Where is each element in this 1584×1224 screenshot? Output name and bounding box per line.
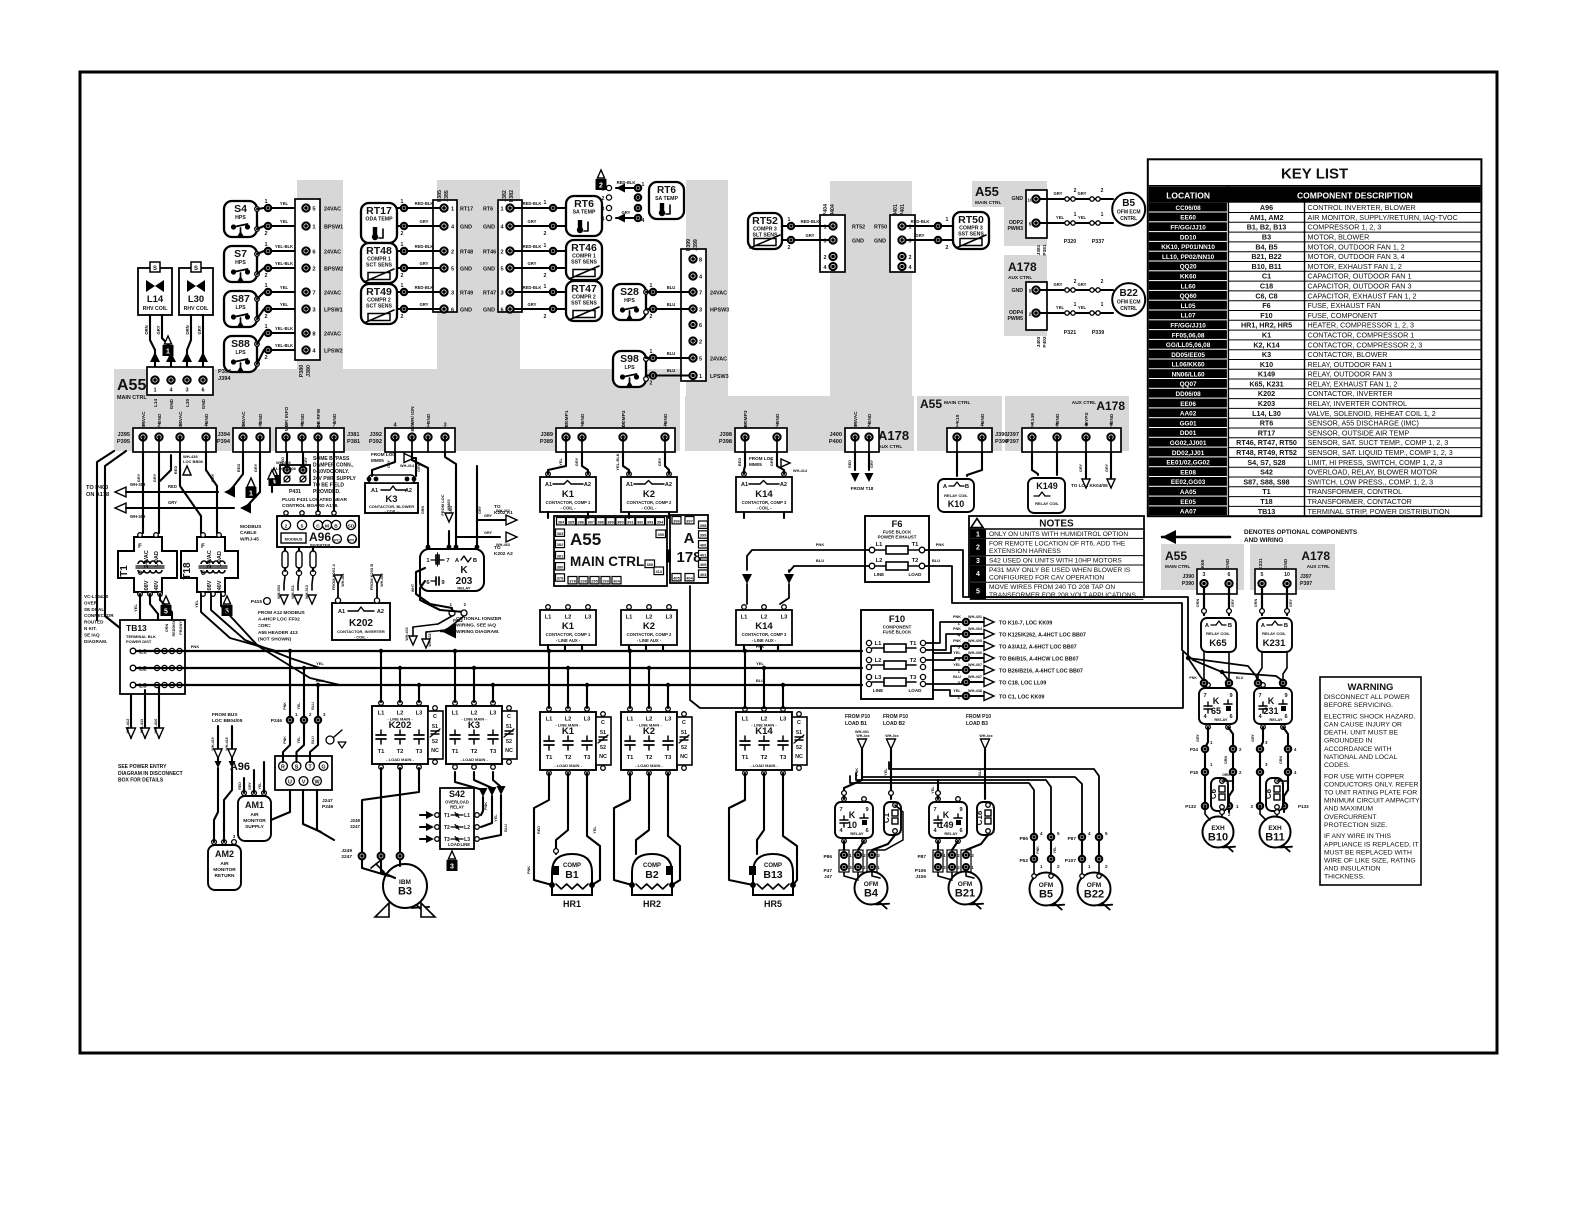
- svg-text:394: 394: [657, 519, 664, 524]
- svg-text:MM05: MM05: [446, 499, 451, 511]
- pressure switch S4: [224, 201, 257, 237]
- svg-text:390: 390: [617, 519, 624, 524]
- svg-text:GND: GND: [1225, 558, 1231, 569]
- wires J392 to K3 coil: [372, 452, 395, 476]
- svg-text:K2: K2: [643, 489, 655, 500]
- A178 harness vertical bar 4 (P404/J404 - J401/P401): [830, 181, 912, 397]
- svg-text:COMP3: COMP3: [743, 410, 749, 427]
- svg-text:J247: J247: [322, 798, 333, 804]
- svg-text:P86: P86: [1019, 836, 1028, 842]
- svg-text:P431: P431: [289, 489, 301, 495]
- svg-text:J394: J394: [218, 376, 231, 382]
- svg-text:AM2: AM2: [215, 849, 234, 859]
- svg-text:TB13: TB13: [126, 623, 147, 633]
- svg-text:RED: RED: [173, 466, 178, 475]
- svg-text:T2: T2: [912, 558, 919, 564]
- outdoor fan motor B5 control: [1112, 193, 1145, 226]
- svg-text:LOCATION: LOCATION: [1166, 191, 1210, 201]
- svg-text:C8: C8: [1264, 788, 1273, 799]
- svg-text:J380: J380: [306, 365, 312, 377]
- svg-text:9: 9: [865, 807, 868, 813]
- left edge vertical wires: [97, 451, 114, 620]
- svg-text:OVERLOAD, RELAY, BLOWER MOTOR: OVERLOAD, RELAY, BLOWER MOTOR: [1308, 468, 1438, 477]
- svg-text:1: 1: [1040, 864, 1043, 869]
- svg-text:BLU: BLU: [667, 351, 676, 356]
- svg-text:WH-462: WH-462: [496, 509, 510, 513]
- svg-text:396: 396: [673, 518, 680, 523]
- wires F10 load to arrows: [926, 622, 962, 643]
- svg-text:CAPACITOR, OUTDOOR FAN 3: CAPACITOR, OUTDOOR FAN 3: [1308, 282, 1412, 291]
- svg-text:WH-463: WH-463: [496, 543, 510, 547]
- svg-text:REDDISH: REDDISH: [172, 619, 176, 636]
- svg-text:WH-414: WH-414: [400, 464, 415, 468]
- svg-text:2: 2: [992, 829, 995, 834]
- svg-text:YEL: YEL: [316, 661, 324, 666]
- transformer T1: [118, 537, 177, 592]
- svg-text:J397: J397: [1007, 432, 1019, 438]
- svg-text:C18: C18: [1260, 282, 1273, 291]
- svg-text:OFM ECM: OFM ECM: [1117, 300, 1141, 306]
- wires K149/C18 to P87: [937, 841, 939, 850]
- relay K203: [420, 549, 484, 591]
- connector J390/P390: [947, 428, 992, 452]
- svg-text:GND: GND: [460, 267, 472, 273]
- svg-text:P87: P87: [1067, 836, 1076, 842]
- svg-text:A55: A55: [117, 377, 146, 394]
- svg-text:LOC BB04/05: LOC BB04/05: [212, 718, 243, 724]
- connector J397/P397 (K231): [1255, 569, 1296, 594]
- svg-text:HEATER, COMPRESSOR 1, 2, 3: HEATER, COMPRESSOR 1, 2, 3: [1308, 321, 1415, 330]
- svg-text:BLU: BLU: [667, 285, 676, 290]
- svg-text:GRY: GRY: [197, 325, 202, 334]
- pressure switch S98: [613, 351, 646, 387]
- contactor K2 line main: [621, 712, 677, 770]
- svg-text:PNK: PNK: [1036, 846, 1040, 854]
- svg-text:GRY: GRY: [1078, 282, 1087, 287]
- svg-text:K202: K202: [1258, 389, 1275, 398]
- svg-text:N KIT.: N KIT.: [84, 626, 97, 631]
- svg-text:RT6: RT6: [574, 198, 594, 210]
- svg-text:24VAC: 24VAC: [324, 332, 341, 338]
- svg-text:LL07: LL07: [1181, 313, 1196, 320]
- svg-text:P404: P404: [823, 204, 829, 216]
- svg-text:L3: L3: [665, 717, 673, 723]
- svg-text:2: 2: [1101, 188, 1104, 194]
- svg-text:YEL: YEL: [297, 736, 301, 744]
- svg-text:380: 380: [557, 565, 564, 570]
- svg-text:GND: GND: [300, 413, 306, 424]
- svg-text:P397: P397: [1300, 581, 1312, 587]
- svg-text:5: 5: [301, 524, 304, 530]
- svg-text:2: 2: [976, 545, 980, 552]
- svg-text:FF05,06,08: FF05,06,08: [1172, 332, 1205, 339]
- svg-text:AUX CTRL: AUX CTRL: [1008, 275, 1032, 281]
- svg-text:PNK: PNK: [953, 615, 961, 619]
- optional RT6 remote pins: [606, 185, 611, 190]
- svg-text:L1: L1: [546, 717, 554, 723]
- svg-text:YEL: YEL: [756, 661, 764, 666]
- contactor K202 aux contact: [428, 711, 443, 759]
- svg-text:A55: A55: [975, 184, 999, 199]
- svg-text:LINE: LINE: [874, 572, 884, 577]
- svg-text:2: 2: [264, 231, 267, 237]
- wires J381 band to P431: [286, 452, 288, 467]
- svg-text:CODES.: CODES.: [1324, 762, 1350, 769]
- svg-text:RED-BLK: RED-BLK: [415, 244, 434, 249]
- svg-text:GRY: GRY: [1196, 734, 1200, 742]
- svg-text:HPSW3: HPSW3: [710, 308, 729, 314]
- svg-text:BYPS: BYPS: [1084, 412, 1090, 426]
- svg-text:WH-513: WH-513: [305, 585, 309, 599]
- svg-text:J395: J395: [118, 432, 130, 438]
- svg-text:B10: B10: [1208, 832, 1228, 844]
- contactor K2 line aux: [621, 610, 677, 645]
- svg-text:5: 5: [1105, 831, 1108, 836]
- svg-text:B22: B22: [1120, 288, 1139, 299]
- svg-text:GRY: GRY: [528, 261, 537, 266]
- key list column line: [1227, 187, 1229, 517]
- svg-text:T1: T1: [444, 813, 450, 819]
- svg-text:149: 149: [938, 820, 953, 830]
- bus taps to contactors: [379, 649, 785, 708]
- svg-text:4: 4: [909, 265, 912, 271]
- wires K2 load to B2: [614, 773, 632, 885]
- svg-text:P132: P132: [1185, 804, 1196, 809]
- svg-text:BLU: BLU: [932, 558, 940, 563]
- svg-text:295: 295: [591, 578, 598, 583]
- svg-text:TO UNIT RATING PLATE FOR: TO UNIT RATING PLATE FOR: [1324, 790, 1417, 797]
- svg-text:K1: K1: [1262, 331, 1271, 340]
- svg-text:MAIN CTRL: MAIN CTRL: [570, 554, 644, 569]
- svg-text:GRY: GRY: [420, 261, 429, 266]
- svg-text:T3: T3: [584, 755, 592, 761]
- svg-text:51: 51: [681, 730, 687, 736]
- svg-text:B: B: [1284, 623, 1288, 629]
- svg-text:RT46: RT46: [483, 250, 496, 256]
- ionizer text: [441, 624, 456, 639]
- svg-text:1: 1: [544, 284, 547, 290]
- svg-text:24VAC: 24VAC: [241, 411, 247, 427]
- wires F6 load to K65/K231: [925, 550, 1204, 681]
- svg-text:T1: T1: [546, 755, 554, 761]
- svg-text:T1: T1: [119, 565, 130, 577]
- svg-text:YEL-BLK: YEL-BLK: [275, 261, 293, 266]
- optional flag 5 (T18): [223, 596, 230, 604]
- svg-text:GRY: GRY: [1054, 191, 1063, 196]
- J394 wires down: [228, 452, 243, 492]
- connector J395/P395: [133, 428, 216, 452]
- optional flag 1 (P400): [247, 478, 255, 487]
- svg-text:PC: PC: [334, 538, 340, 543]
- svg-text:J399: J399: [693, 239, 699, 251]
- svg-text:SUPPLY: SUPPLY: [245, 824, 265, 830]
- svg-text:52: 52: [681, 745, 687, 751]
- svg-text:L3: L3: [416, 711, 424, 717]
- svg-text:K65: K65: [1209, 638, 1227, 649]
- svg-text:T2: T2: [910, 658, 917, 664]
- svg-text:52: 52: [432, 739, 438, 745]
- svg-text:- LOAD MAIN -: - LOAD MAIN -: [460, 757, 488, 762]
- svg-text:YEL: YEL: [953, 651, 961, 655]
- exhaust fan motor B11: [1260, 817, 1291, 848]
- svg-text:3: 3: [976, 558, 980, 565]
- svg-text:GRN: GRN: [421, 506, 425, 514]
- svg-text:SCT SENS: SCT SENS: [366, 263, 392, 269]
- svg-text:P401: P401: [900, 204, 906, 216]
- svg-text:5: 5: [976, 588, 980, 595]
- wires J382 to sensor: [550, 205, 556, 211]
- svg-text:7: 7: [839, 807, 842, 813]
- svg-text:GRY: GRY: [574, 457, 579, 466]
- svg-text:K10: K10: [948, 499, 965, 509]
- svg-text:TB13: TB13: [1258, 507, 1276, 516]
- svg-text:GND: GND: [204, 413, 210, 424]
- svg-text:WH-511: WH-511: [291, 585, 295, 599]
- svg-text:RELAY: RELAY: [457, 586, 471, 591]
- ground symbol near A96: [326, 736, 334, 744]
- svg-text:WHT: WHT: [411, 583, 415, 592]
- svg-text:FUSE, EXHAUST FAN: FUSE, EXHAUST FAN: [1308, 301, 1381, 310]
- svg-text:P321: P321: [1064, 330, 1077, 336]
- svg-text:S88: S88: [231, 338, 250, 350]
- svg-text:CNTRL: CNTRL: [1120, 306, 1137, 312]
- solenoid valve L14: [138, 268, 172, 315]
- svg-text:52: 52: [506, 739, 512, 745]
- svg-text:P18: P18: [1190, 770, 1199, 775]
- svg-text:S42: S42: [449, 789, 465, 799]
- svg-text:J403: J403: [1036, 336, 1042, 347]
- svg-text:AA07: AA07: [1180, 509, 1197, 516]
- svg-text:3: 3: [1203, 572, 1206, 578]
- svg-text:PWM3: PWM3: [1007, 226, 1023, 232]
- contactor coil K1: [540, 477, 596, 512]
- svg-text:POWER EXHAUST: POWER EXHAUST: [878, 535, 917, 540]
- svg-text:MONITOR: MONITOR: [213, 867, 236, 873]
- svg-text:381: 381: [557, 553, 564, 558]
- svg-text:GRY: GRY: [1251, 734, 1255, 742]
- svg-text:3: 3: [185, 388, 188, 394]
- relay contact 65: [1199, 688, 1237, 724]
- svg-text:MOTOR, BLOWER: MOTOR, BLOWER: [1308, 233, 1370, 242]
- svg-text:LPSW2: LPSW2: [324, 349, 343, 355]
- svg-text:24VAC: 24VAC: [178, 411, 184, 427]
- svg-text:MOTOR, EXHAUST FAN 1, 2: MOTOR, EXHAUST FAN 1, 2: [1308, 262, 1402, 271]
- connector J389/P389: [556, 428, 675, 452]
- svg-text:K: K: [1213, 696, 1220, 706]
- svg-text:WH-309: WH-309: [130, 514, 146, 519]
- connector P404/J404: [820, 215, 845, 272]
- svg-text:YEL: YEL: [953, 689, 961, 693]
- connector J394/P394 (L14/L30): [147, 367, 213, 395]
- svg-text:LOC BB08: LOC BB08: [183, 459, 204, 464]
- svg-text:RT6: RT6: [657, 185, 676, 196]
- svg-text:RELAY, INVERTER CONTROL: RELAY, INVERTER CONTROL: [1308, 399, 1407, 408]
- svg-text:FROM A12 MODBUS: FROM A12 MODBUS: [258, 610, 306, 616]
- svg-text:2: 2: [544, 231, 547, 237]
- svg-text:K149: K149: [1036, 481, 1058, 491]
- svg-text:GROUNDED IN: GROUNDED IN: [1324, 738, 1372, 745]
- svg-text:YEL: YEL: [280, 201, 289, 206]
- svg-text:405: 405: [700, 562, 707, 567]
- svg-text:GND: GND: [580, 413, 586, 424]
- svg-text:HR5: HR5: [764, 899, 782, 909]
- contactor coil K14: [736, 477, 792, 512]
- K231 to C8/B11 column: [1260, 727, 1263, 803]
- svg-text:IF ANY WIRE IN THIS: IF ANY WIRE IN THIS: [1324, 833, 1391, 840]
- svg-text:T3: T3: [416, 749, 424, 755]
- svg-text:J106: J106: [915, 874, 926, 880]
- svg-text:YEL-BLK: YEL-BLK: [275, 343, 293, 348]
- svg-text:DD02,JJ01: DD02,JJ01: [1172, 450, 1205, 457]
- J397 other wires: [1085, 452, 1087, 478]
- svg-text:GND: GND: [426, 413, 432, 424]
- connector J397/P397: [1022, 428, 1121, 452]
- svg-text:GND: GND: [332, 413, 338, 424]
- A178 map box: [670, 515, 708, 583]
- sensor RT48: [361, 243, 397, 283]
- svg-text:T1: T1: [378, 749, 386, 755]
- svg-text:2: 2: [401, 231, 404, 237]
- wires S98 to P399: [650, 355, 656, 361]
- svg-text:GRY: GRY: [528, 302, 537, 307]
- svg-text:2: 2: [899, 829, 902, 834]
- svg-text:SCT SENS: SCT SENS: [366, 304, 392, 310]
- svg-text:MONITOR: MONITOR: [243, 818, 266, 824]
- svg-text:6: 6: [1228, 572, 1231, 578]
- three phase bus L3: [136, 684, 862, 686]
- capacitor C18: [977, 802, 994, 835]
- svg-text:AA02: AA02: [1180, 411, 1197, 418]
- wires coils to contacts: [1201, 680, 1207, 686]
- svg-text:RELAY, EXHAUST FAN 1, 2: RELAY, EXHAUST FAN 1, 2: [1308, 379, 1398, 388]
- svg-text:CNTRL: CNTRL: [1120, 216, 1137, 222]
- svg-text:392: 392: [637, 519, 644, 524]
- svg-text:KK60: KK60: [1180, 274, 1197, 281]
- denotes-optional arrow note: [1162, 530, 1176, 544]
- svg-text:T2: T2: [444, 825, 450, 831]
- wires J382 to sensor: [550, 248, 556, 254]
- svg-text:24VAC: 24VAC: [324, 207, 341, 213]
- svg-text:COMP1: COMP1: [564, 410, 570, 427]
- wires K1 load to B1: [534, 773, 552, 885]
- svg-text:GRY: GRY: [304, 457, 308, 465]
- svg-text:BLU: BLU: [311, 736, 315, 744]
- svg-text:GRY: GRY: [136, 473, 141, 482]
- svg-text:B3: B3: [398, 886, 412, 898]
- svg-text:1: 1: [401, 283, 404, 289]
- svg-text:CONTACTOR, BLOWER: CONTACTOR, BLOWER: [1308, 350, 1388, 359]
- svg-text:GRY: GRY: [168, 500, 177, 505]
- svg-text:1: 1: [153, 388, 156, 394]
- svg-text:2: 2: [788, 245, 791, 251]
- svg-text:P52: P52: [1019, 858, 1028, 864]
- svg-text:2: 2: [1074, 188, 1077, 194]
- sensor RT6: [566, 196, 602, 236]
- svg-text:P400: P400: [829, 439, 842, 445]
- svg-text:AIR: AIR: [250, 812, 259, 818]
- svg-text:L1: L1: [876, 542, 884, 548]
- wires J390 to K10: [956, 452, 958, 476]
- svg-text:1: 1: [544, 243, 547, 249]
- svg-text:S: S: [194, 266, 198, 272]
- svg-text:POWER DIST: POWER DIST: [126, 639, 152, 644]
- svg-text:GND: GND: [157, 413, 163, 424]
- contactor K14 aux contact: [792, 717, 807, 765]
- svg-text:B: B: [334, 524, 338, 530]
- svg-text:K2, K14: K2, K14: [1253, 340, 1279, 349]
- svg-text:1: 1: [166, 349, 170, 356]
- wires sensor to P385: [401, 289, 407, 295]
- svg-text:A2: A2: [405, 488, 412, 494]
- svg-text:K2: K2: [643, 726, 655, 737]
- svg-text:ODA TEMP: ODA TEMP: [365, 217, 393, 223]
- svg-text:L1: L1: [545, 615, 553, 621]
- svg-text:7: 7: [1203, 693, 1206, 699]
- svg-text:LOAD B3: LOAD B3: [966, 721, 988, 727]
- svg-text:KK10, PP01/NN10: KK10, PP01/NN10: [1161, 244, 1215, 251]
- svg-text:DD06/08: DD06/08: [1175, 391, 1201, 398]
- svg-text:OFM ECM: OFM ECM: [1117, 210, 1141, 216]
- svg-text:LPS: LPS: [235, 350, 246, 356]
- A178 aux ctrl block mid right (K231): [1250, 544, 1335, 590]
- svg-text:K149: K149: [1030, 413, 1036, 425]
- svg-text:P394: P394: [218, 369, 232, 375]
- svg-text:PNK: PNK: [953, 627, 961, 631]
- diagram border frame: [80, 72, 1497, 1053]
- svg-text:P381: P381: [347, 439, 360, 445]
- svg-text:GRY: GRY: [420, 219, 429, 224]
- svg-text:RELAY: RELAY: [450, 805, 464, 810]
- svg-text:- COIL -: - COIL -: [641, 506, 657, 511]
- svg-text:ORN: ORN: [1222, 773, 1230, 777]
- svg-text:- LOAD MAIN -: - LOAD MAIN -: [554, 763, 582, 768]
- relay coil K65: [1201, 618, 1236, 652]
- svg-text:T3: T3: [665, 755, 673, 761]
- svg-text:=OR=: =OR=: [258, 623, 271, 629]
- svg-text:A96: A96: [1260, 203, 1273, 212]
- connector P380/J380: [295, 199, 320, 360]
- sensor RT50: [953, 212, 989, 249]
- svg-text:397: 397: [686, 518, 693, 523]
- svg-text:RED: RED: [848, 460, 852, 468]
- svg-text:B1, B2, B13: B1, B2, B13: [1247, 223, 1287, 232]
- svg-text:J47: J47: [824, 874, 832, 880]
- svg-text:BEFORE SERVICING.: BEFORE SERVICING.: [1324, 702, 1393, 709]
- svg-text:L2: L2: [761, 615, 768, 621]
- svg-text:S42: S42: [1260, 468, 1273, 477]
- svg-text:COMPRESSOR 1, 2, 3: COMPRESSOR 1, 2, 3: [1308, 223, 1382, 232]
- svg-text:BLU: BLU: [667, 368, 676, 373]
- A55 main ctrl block mid right (K65): [1161, 544, 1244, 590]
- svg-text:T2: T2: [761, 755, 768, 761]
- svg-text:52: 52: [600, 745, 606, 751]
- svg-text:LOC BB08: LOC BB08: [276, 466, 297, 471]
- svg-text:L1: L1: [626, 615, 634, 621]
- svg-text:GND: GND: [460, 225, 472, 231]
- svg-text:P394: P394: [217, 439, 231, 445]
- svg-text:YEL: YEL: [953, 663, 961, 667]
- svg-text:2: 2: [1101, 279, 1104, 285]
- svg-text:2: 2: [909, 255, 912, 261]
- wires A96 UVW to AM/B3: [271, 790, 290, 820]
- svg-text:CONTACTOR, INVERTER: CONTACTOR, INVERTER: [1308, 389, 1393, 398]
- svg-text:SD: SD: [348, 524, 355, 530]
- svg-text:GRY: GRY: [210, 473, 215, 482]
- svg-text:- COIL -: - COIL -: [384, 509, 399, 514]
- svg-text:ORN: ORN: [165, 624, 169, 633]
- svg-text:LINE: LINE: [460, 842, 470, 847]
- svg-text:L3: L3: [585, 615, 593, 621]
